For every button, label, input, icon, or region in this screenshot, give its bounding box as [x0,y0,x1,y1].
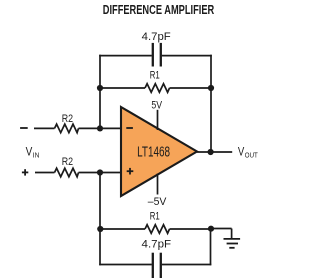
svg-text:R2: R2 [62,156,73,168]
junction: output node [208,149,214,155]
wire: minus source to R2 [34,127,55,129]
resistor R1 (top feedback) [145,84,170,93]
capacitor C1 plates [153,43,161,67]
junction: non-inverting input node [97,169,103,175]
label VIN [26,146,40,159]
svg-text:IN: IN [33,152,40,159]
wire: left rail top (inverting node up to cap branch) [99,55,101,128]
label VOUT [238,147,259,160]
svg-text:–5V: –5V [148,196,167,208]
svg-text:4.7pF: 4.7pF [142,239,172,251]
svg-text:5V: 5V [151,99,162,111]
junction: R1 branch to right rail [208,85,214,91]
wire: R2 to op-amp non-inverting input [79,172,122,174]
junction: bottom R1 branch to ground rail [208,226,214,232]
wire: output from op-amp apex [197,151,232,153]
wire: left rail bottom (non-inverting node down to bottom cap branch) [99,173,101,266]
wire: 5V supply to op-amp top [157,110,159,130]
svg-text:R1: R1 [150,211,160,223]
wire: plus source to R2 [35,172,55,174]
wire: top capacitor branch right segment [162,55,212,57]
resistor R2 (inverting input) [55,124,79,133]
op-amp U1 LT1468 triangle [121,107,197,196]
svg-text:4.7pF: 4.7pF [142,31,171,43]
wire: right bottom rail (node down to cap branch) [210,229,212,266]
op-amp U1 inverting pin mark [126,127,133,129]
junction: R1 branch to left rail [97,85,103,91]
svg-text:R1: R1 [150,70,160,82]
wire: top capacitor branch left segment [99,55,152,57]
resistor R2 (non-inverting input) [55,168,79,177]
junction: inverting input node [97,125,103,131]
svg-text:OUT: OUT [245,153,259,160]
svg-text:DIFFERENCE AMPLIFIER: DIFFERENCE AMPLIFIER [103,2,215,17]
node: inverting input source minus sign [20,127,28,129]
resistor R1 (bottom, non-inverting network) [145,225,170,234]
op-amp U1 non-inverting pin mark [127,168,134,175]
wire: right rail (cap branch down to output node) [210,55,212,152]
wire: R1 bottom branch left segment [100,228,145,230]
svg-text:V: V [26,146,33,158]
svg-text:V: V [238,147,245,159]
wire: bottom capacitor branch left segment [99,264,152,266]
svg-text:LT1468: LT1468 [137,144,170,160]
wire: op-amp bottom to -5V supply [157,174,159,195]
wire: R1 top branch left segment [100,87,145,89]
capacitor C2 plates [153,253,161,278]
wire: R1 bottom branch right segment [170,228,212,230]
junction: bottom R1 branch to left rail [97,226,103,232]
wire: bottom capacitor branch right segment [162,264,212,266]
wire: bottom node to ground [211,228,232,230]
ground [224,229,241,248]
wire: R1 top branch right segment [170,87,212,89]
wire: R2 to op-amp inverting input [79,127,122,129]
node: non-inverting input source plus sign [22,169,28,175]
svg-text:R2: R2 [62,113,73,125]
